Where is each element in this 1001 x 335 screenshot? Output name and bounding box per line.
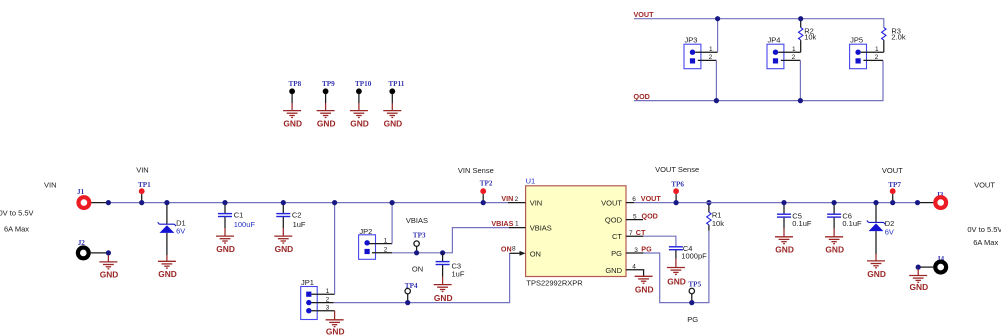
svg-text:1uF: 1uF [452,269,465,278]
junction C3 [440,250,445,255]
diode D1 (zener 6V) [158,203,186,262]
svg-text:0.1uF: 0.1uF [792,219,812,228]
svg-text:10k: 10k [804,32,816,41]
svg-text:1: 1 [384,237,388,244]
svg-text:GND: GND [635,284,654,294]
svg-text:U1: U1 [526,177,536,186]
resistor R3 [882,27,906,53]
svg-text:VOUT: VOUT [974,180,995,189]
pin 5 QOD of U1 [626,211,658,220]
pin 1 VBIAS of U1 [491,219,525,228]
diode D2 (zener 6V) [867,203,894,261]
svg-text:PG: PG [641,244,652,253]
resistor R2 [799,19,817,53]
svg-text:JP1: JP1 [301,278,314,287]
svg-text:VOUT: VOUT [882,166,903,175]
svg-text:GND: GND [384,118,403,128]
svg-text:JP5: JP5 [850,36,863,45]
pin 4 GND of U1 [626,263,644,276]
ground C2 [274,236,292,243]
svg-text:2: 2 [709,54,713,61]
testpoint TP10 [355,80,372,111]
capacitor C4 [669,244,707,267]
svg-text:GND: GND [326,327,345,335]
wire JP4 pin2 to QOD [799,60,801,100]
svg-text:4: 4 [632,263,636,270]
svg-text:ON: ON [412,265,423,274]
svg-text:TP2: TP2 [480,180,493,188]
ground D2 [867,261,885,268]
junction J3 [915,200,920,205]
junction C2 [281,200,286,205]
op U1 TPS22992RXPR [526,177,626,288]
svg-text:GND: GND [434,293,453,303]
svg-text:TP9: TP9 [322,80,335,88]
junction TP7 [890,200,895,205]
junction J1 [106,200,111,205]
svg-text:GND: GND [216,244,235,254]
capacitor C5 [777,203,812,237]
svg-text:JP3: JP3 [685,36,698,45]
svg-text:VOUT Sense: VOUT Sense [655,165,699,174]
svg-text:0.1uF: 0.1uF [842,219,862,228]
testpoint TP4 [405,282,418,303]
ground JP1 [326,320,344,327]
svg-text:VOUT: VOUT [601,199,622,208]
svg-text:GND: GND [867,269,886,279]
svg-text:7: 7 [629,230,633,237]
svg-text:VIN: VIN [501,194,513,203]
svg-text:C1: C1 [234,210,244,219]
testpoint TP5 [688,280,701,302]
connector J3 [918,191,947,208]
svg-text:2: 2 [384,247,388,254]
junction JP2 [390,200,395,205]
junction TP6 [674,200,679,205]
svg-text:GND: GND [825,244,844,254]
svg-text:J1: J1 [77,188,85,196]
pin 2 VIN of U1 [501,194,525,203]
svg-text:8: 8 [512,246,516,253]
wire J4 to ground [917,269,919,275]
svg-text:VBIAS: VBIAS [491,219,513,228]
junction C1 [222,200,227,205]
svg-text:GND: GND [275,244,294,254]
wire VIN rail [108,202,508,204]
svg-text:100uF: 100uF [234,220,256,229]
testpoint TP3 [413,232,426,253]
ground TP11 [383,111,401,118]
svg-text:TP1: TP1 [138,181,151,189]
junction TP1 [139,200,144,205]
svg-text:GND: GND [605,266,622,275]
ground C4 [667,268,685,275]
ground U1 pin4 [635,276,653,283]
connector J2 [78,239,109,258]
junction D2 [873,200,878,205]
wire JP1 pin1 to VIN rail [334,203,336,295]
svg-text:1: 1 [709,46,713,53]
wire JP1 pin3 to ground [334,311,336,320]
jumper JP2 [359,227,393,259]
svg-text:1: 1 [875,46,879,53]
junction JP1 [332,200,337,205]
svg-text:3: 3 [326,305,330,312]
jumper JP5 [850,36,884,69]
svg-text:TPS22992RXPR: TPS22992RXPR [526,279,583,288]
svg-text:VIN Sense: VIN Sense [458,166,494,175]
svg-text:GND: GND [667,276,686,286]
junction C6 [832,200,837,205]
ground J4 [909,276,927,283]
svg-text:2: 2 [792,54,796,61]
testpoint TP8 [289,80,302,111]
ground C6 [825,237,843,244]
ground D1 [158,261,176,268]
wire JP3 pin2 to QOD [715,60,717,100]
svg-text:1000pF: 1000pF [681,251,707,260]
svg-text:JP2: JP2 [359,227,372,236]
svg-text:6V: 6V [176,227,185,236]
svg-text:GND: GND [317,118,336,128]
wire JP3 pin1 to VOUT [717,19,719,53]
pin 6 VOUT of U1 [626,194,661,203]
testpoint TP2 [458,166,494,203]
junction TP3 [414,250,419,255]
wire VOUT rail [634,202,918,204]
svg-text:PG: PG [687,315,698,324]
wire QOD net (bottom) [634,60,883,100]
svg-text:VOUT: VOUT [641,194,662,203]
svg-text:C2: C2 [292,210,302,219]
svg-text:TP6: TP6 [671,180,684,188]
svg-text:5: 5 [633,214,637,221]
resistor R1 [707,203,725,231]
junction TP5 [689,300,694,305]
svg-text:VBIAS: VBIAS [406,216,428,225]
ground TP8 [283,111,301,118]
pin 7 CT of U1 [626,228,646,237]
svg-text:GND: GND [775,244,794,254]
svg-text:6A Max: 6A Max [973,238,998,247]
wire VBIAS net [392,228,509,253]
ground C3 [434,285,452,292]
svg-text:GND: GND [100,270,119,280]
svg-text:2.0k: 2.0k [891,32,905,41]
pin 3 PG of U1 [626,244,652,254]
svg-text:TP5: TP5 [688,280,701,288]
svg-text:TP7: TP7 [888,181,901,189]
wire J2 to ground [107,255,109,262]
svg-text:QOD: QOD [634,92,650,101]
capacitor C1 [218,203,255,237]
svg-text:VIN: VIN [44,180,57,189]
jumper JP1 (3 pin) [301,278,335,319]
junction J2 [106,250,111,255]
connector J4 [918,255,946,273]
junction R1 [706,200,711,205]
svg-text:2: 2 [875,54,879,61]
svg-text:VIN: VIN [530,199,543,208]
svg-text:VIN: VIN [136,166,149,175]
svg-text:0V to 5.5V: 0V to 5.5V [967,225,1001,234]
svg-text:QOD: QOD [605,216,623,225]
wire VOUT net (top) [634,19,884,28]
junction JP4/QOD [798,98,803,103]
junction TP2 [481,200,486,205]
svg-text:3: 3 [634,247,638,254]
svg-text:2: 2 [515,196,519,203]
svg-text:JP4: JP4 [768,36,781,45]
junction C5 [781,200,786,205]
svg-text:1: 1 [326,288,330,295]
svg-text:1: 1 [792,46,796,53]
svg-text:TP3: TP3 [413,232,426,240]
ground C5 [775,237,793,244]
svg-text:10k: 10k [712,219,724,228]
testpoint TP6 [655,165,699,203]
svg-text:1uF: 1uF [293,220,306,229]
testpoint TP9 [322,80,335,111]
wire ON net (JP1 pin2 to U1 ON) [334,253,510,302]
connector J1 [77,188,108,208]
junction JP3/QOD [714,98,719,103]
ground TP10 [350,111,368,118]
pin 8 ON of U1 [501,244,526,255]
svg-text:TP10: TP10 [355,80,372,88]
testpoint TP11 [388,80,404,111]
ground C1 [216,236,234,243]
jumper JP4 [767,36,801,69]
svg-text:TP11: TP11 [388,80,404,88]
svg-text:6A Max: 6A Max [4,224,29,233]
svg-text:GND: GND [910,282,929,292]
svg-text:CT: CT [612,232,622,241]
wire CT net [643,236,676,246]
svg-text:6V: 6V [885,227,894,236]
testpoint TP7 [882,166,903,203]
svg-text:2: 2 [326,296,330,303]
svg-text:PG: PG [611,249,622,258]
junction JP3/VOUT [715,16,720,21]
svg-text:QOD: QOD [642,211,658,220]
junction J4 [916,265,921,270]
junction D1 [164,200,169,205]
svg-text:VBIAS: VBIAS [530,224,552,233]
capacitor C3 [436,253,465,285]
ground J2 [99,262,117,269]
svg-text:GND: GND [283,118,302,128]
capacitor C6 [827,203,862,237]
svg-text:GND: GND [158,269,177,279]
junction R2/VOUT [798,16,803,21]
capacitor C2 [276,203,306,237]
wire PG net [643,231,709,303]
ground TP9 [317,111,335,118]
svg-text:0V to 5.5V: 0V to 5.5V [0,208,34,217]
svg-text:VOUT: VOUT [634,10,655,19]
junction TP4 [405,300,410,305]
svg-text:ON: ON [501,244,512,253]
svg-text:TP8: TP8 [289,80,302,88]
svg-text:ON: ON [530,249,541,258]
jumper JP3 [684,36,718,69]
svg-text:1: 1 [515,221,519,228]
testpoint TP1 [136,166,151,203]
wire JP2 pin1 to VIN rail [391,203,393,244]
svg-text:GND: GND [350,118,369,128]
